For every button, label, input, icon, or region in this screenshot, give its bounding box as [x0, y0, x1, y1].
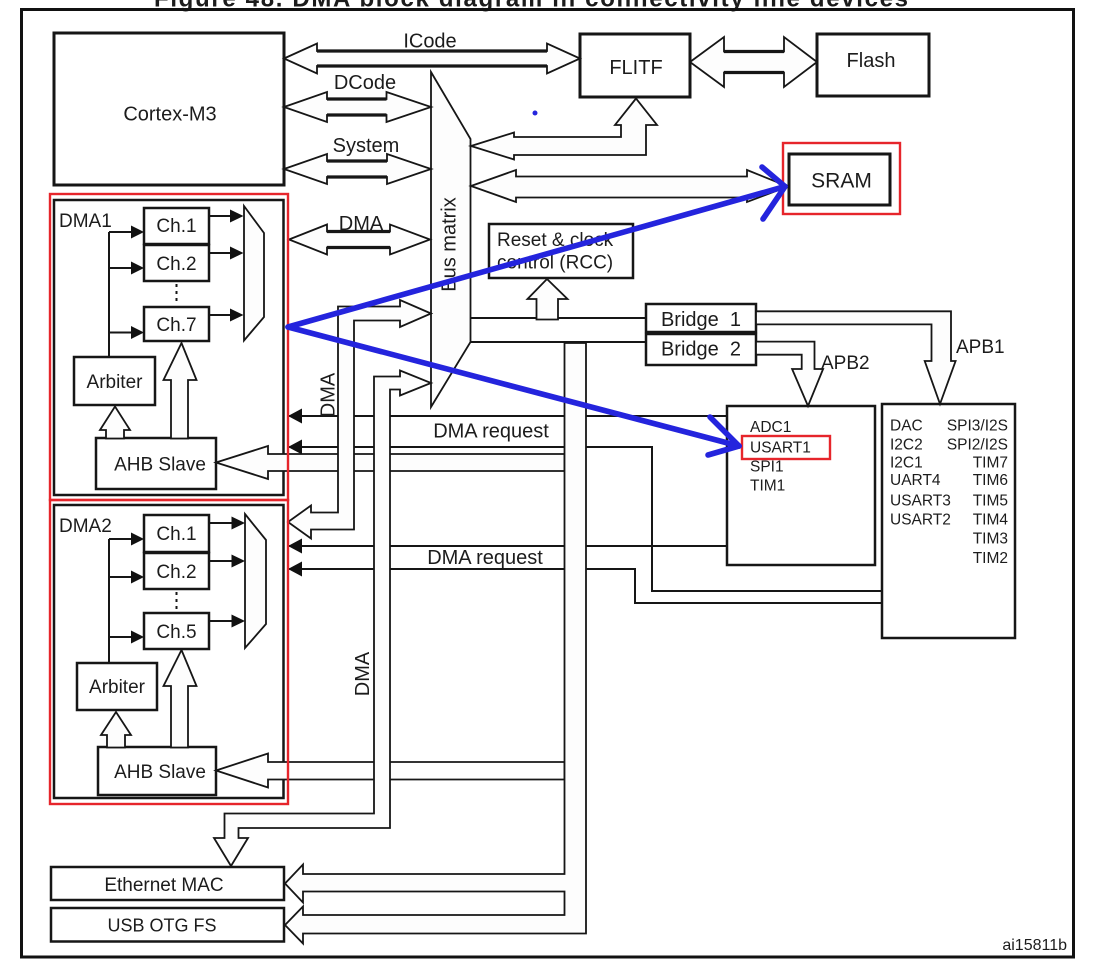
svg-text:Bridge 1: Bridge 1 — [661, 309, 741, 331]
DMA2 ch.1 output arrow — [209, 517, 245, 530]
DMA request arrowhead into DMA2 (line 2) — [288, 562, 302, 577]
svg-text:TIM4: TIM4 — [973, 511, 1009, 528]
wire: bus matrix to Bridge 1 — [470, 317, 646, 319]
DMA1 mux funnel — [244, 206, 264, 341]
svg-text:Flash: Flash — [847, 50, 896, 72]
hollow wire: bus matrix to SRAM (double arrow) — [471, 170, 788, 202]
svg-text:TIM5: TIM5 — [973, 492, 1008, 509]
wire: DMA1 request line 1 (to ADC1 box) — [288, 415, 727, 417]
svg-text:DMA2: DMA2 — [59, 516, 112, 537]
DMA1 Ch.1 box — [144, 208, 209, 244]
svg-text:DMA request: DMA request — [433, 421, 549, 443]
svg-text:DMA request: DMA request — [427, 547, 543, 569]
DMA request arrowhead into DMA1 (line 1) — [288, 409, 302, 424]
DMA2 Ch.5 box — [144, 613, 209, 649]
DMA1 arrow AHB slave to Ch.7 — [164, 343, 197, 439]
APB2 hollow elbow arrow — [756, 342, 823, 406]
svg-text:DMA: DMA — [352, 651, 374, 696]
USART1 red annotation box — [742, 436, 830, 459]
DMA1 red annotation box — [50, 194, 288, 500]
DMA double arrow (Cortex) — [289, 225, 430, 255]
svg-text:APB2: APB2 — [821, 353, 870, 374]
DMA2 inner box — [54, 505, 284, 798]
hollow channel: AHB to Ethernet MAC and USB OTG FS (with two left arrows) — [285, 343, 586, 944]
svg-text:Ethernet MAC: Ethernet MAC — [104, 875, 223, 896]
Bridge 2 box — [646, 334, 756, 365]
wire: DMA1 request line 2 (to APB1 box) — [288, 447, 882, 591]
svg-text:Ch.5: Ch.5 — [156, 622, 196, 643]
DMA2 AHB Slave box — [98, 747, 216, 795]
wire: DMA2 request line 2 (to APB1 box) — [288, 569, 882, 603]
svg-text:DCode: DCode — [334, 72, 396, 94]
svg-text:I2C1: I2C1 — [890, 454, 923, 471]
svg-text:DAC: DAC — [890, 418, 923, 435]
DMA request arrowhead into DMA2 (line 1) — [288, 539, 302, 554]
wire: DMA2 request line 1 (to ADC1 box) — [288, 545, 727, 547]
svg-text:TIM1: TIM1 — [750, 477, 785, 494]
wire: bus matrix to Bridge 2 — [470, 341, 646, 343]
APB2 peripherals box (ADC1/USART1/SPI1/TIM1) — [727, 406, 875, 565]
DMA1 ch.7 output arrow — [209, 309, 244, 322]
DMA1 ch.1 output arrow — [209, 210, 244, 223]
svg-text:TIM6: TIM6 — [973, 472, 1008, 489]
DMA2 Arbiter box — [77, 663, 157, 710]
DMA1 AHB Slave box — [96, 438, 216, 489]
System double arrow — [284, 154, 431, 184]
Reset & clock control (RCC) box — [489, 224, 633, 278]
DMA1 channel input trunk — [108, 232, 110, 357]
DMA1 Ch.1/Ch.2 divider — [144, 244, 209, 246]
RCC up arrow — [528, 279, 568, 320]
svg-text:Ch.7: Ch.7 — [156, 315, 196, 336]
APB1 hollow elbow arrow — [756, 311, 956, 404]
hollow wire: USB DMA trunk (bus matrix arrow down to DMA2 mux arrow) — [288, 300, 431, 539]
svg-text:Arbiter: Arbiter — [89, 677, 146, 698]
DMA request arrowhead into DMA1 (line 2) — [288, 440, 302, 455]
DMA1 ch.2 input arrow — [109, 262, 144, 275]
hollow arrow: AHB bus into DMA2 AHB Slave — [216, 754, 565, 788]
svg-text:TIM2: TIM2 — [973, 550, 1008, 567]
svg-text:DMA: DMA — [339, 213, 384, 235]
DMA2 ch.5 input arrow — [109, 631, 144, 644]
svg-text:Arbiter: Arbiter — [87, 372, 144, 393]
svg-text:DMA1: DMA1 — [59, 211, 112, 232]
blue annotation arrow to SRAM — [288, 167, 785, 327]
DMA2 red annotation box — [50, 500, 288, 804]
svg-text:System: System — [333, 135, 400, 157]
svg-text:UART4: UART4 — [890, 472, 941, 489]
DMA2 mux funnel — [245, 514, 266, 648]
DMA2 Ch.2 box — [144, 553, 209, 589]
svg-text:AHB Slave: AHB Slave — [114, 762, 206, 783]
DMA1 inner box — [54, 200, 284, 495]
SRAM box — [789, 154, 890, 205]
SRAM red highlight box — [783, 143, 900, 214]
DMA1 dotted line — [176, 284, 178, 305]
APB1 peripherals box (DAC..TIM2) — [882, 404, 1015, 638]
DMA2 Ch.1 box — [144, 515, 209, 552]
svg-text:Ch.2: Ch.2 — [156, 562, 196, 583]
svg-text:SPI3/I2S: SPI3/I2S — [947, 418, 1008, 435]
hollow arrow: AHB bus into DMA1 AHB Slave — [216, 446, 565, 479]
DMA1 ch.7 input arrow — [109, 326, 144, 339]
svg-text:USART2: USART2 — [890, 511, 951, 528]
DMA1 Ch.7 box — [144, 307, 209, 341]
DMA2 Ch.1/Ch.2 divider — [144, 552, 209, 554]
svg-text:Bridge 2: Bridge 2 — [661, 339, 741, 361]
DMA1 ch.2 output arrow — [209, 247, 244, 260]
bus matrix trapezoid — [431, 72, 471, 407]
blue annotation arrow to USART1 — [288, 327, 739, 455]
DMA2 ch.1 input arrow — [109, 533, 144, 546]
svg-text:I2C2: I2C2 — [890, 437, 923, 454]
DMA1 arrow AHB slave to Arbiter — [100, 407, 130, 439]
svg-text:FLITF: FLITF — [609, 57, 662, 79]
svg-text:Ch.2: Ch.2 — [156, 254, 196, 275]
hollow wire: bus matrix to FLITF (elbow with up arrow) — [471, 99, 657, 160]
DMA2 arrow AHB slave to Ch.5 — [164, 650, 197, 748]
svg-text:DMA: DMA — [318, 372, 340, 417]
USB OTG FS box — [51, 908, 284, 942]
DMA1 Ch.2 box — [144, 245, 209, 281]
svg-text:Ch.1: Ch.1 — [156, 216, 196, 237]
svg-text:ai15811b: ai15811b — [1002, 937, 1067, 954]
svg-text:Cortex-M3: Cortex-M3 — [123, 104, 216, 126]
svg-text:SPI1: SPI1 — [750, 458, 784, 475]
Bridge 1 box — [646, 304, 756, 332]
DMA2 dotted line — [176, 592, 178, 612]
FLITF box — [580, 34, 690, 97]
DMA2 ch.2 input arrow — [109, 571, 144, 584]
DMA1 Arbiter box — [74, 357, 155, 405]
svg-text:AHB Slave: AHB Slave — [114, 455, 206, 476]
Flash box — [817, 34, 929, 96]
svg-text:APB1: APB1 — [956, 337, 1005, 358]
svg-text:SPI2/I2S: SPI2/I2S — [947, 437, 1008, 454]
svg-text:USB OTG FS: USB OTG FS — [107, 916, 216, 936]
DCode double arrow — [284, 92, 431, 122]
svg-text:SRAM: SRAM — [811, 170, 872, 193]
DMA2 ch.2 output arrow — [209, 555, 245, 568]
DMA2 arrow AHB slave to Arbiter — [101, 712, 131, 748]
svg-text:ADC1: ADC1 — [750, 419, 791, 436]
blue dot artifact — [533, 111, 538, 116]
DMA1 ch.1 input arrow — [109, 226, 144, 239]
svg-text:USART1: USART1 — [750, 439, 811, 456]
DMA2 ch.5 output arrow — [209, 615, 245, 628]
ICode double arrow — [284, 44, 580, 74]
svg-text:USART3: USART3 — [890, 492, 951, 509]
Ethernet MAC box — [51, 867, 284, 900]
svg-text:TIM7: TIM7 — [973, 454, 1008, 471]
hollow wire: Ethernet MAC DMA trunk (bus matrix arrow, elbow, down arrow into Ethernet) — [214, 371, 431, 867]
DMA2 channel input trunk — [108, 539, 110, 663]
Cortex-M3 box — [54, 33, 284, 185]
svg-text:Ch.1: Ch.1 — [156, 524, 196, 545]
FLITF-Flash double arrow — [690, 37, 817, 87]
svg-text:ICode: ICode — [403, 31, 456, 53]
svg-text:TIM3: TIM3 — [973, 530, 1008, 547]
